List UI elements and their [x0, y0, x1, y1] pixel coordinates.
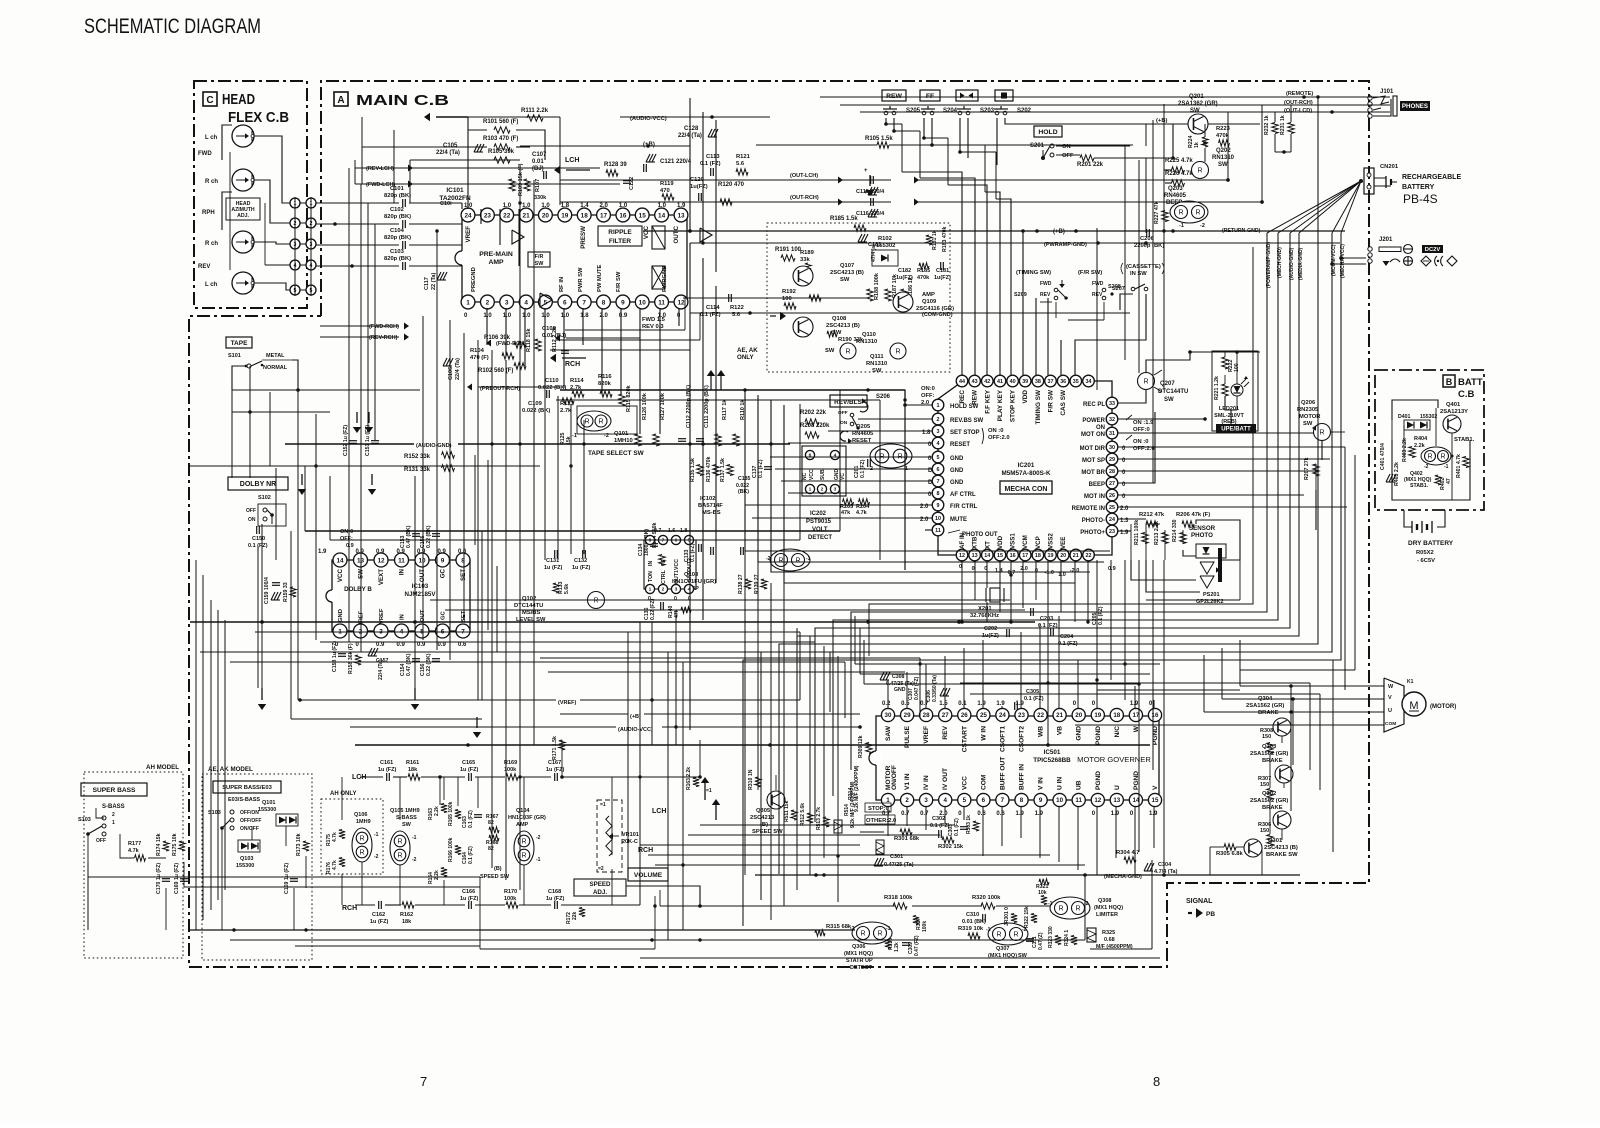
wire sensor cluster	[1131, 520, 1240, 600]
svg-text:0.6: 0.6	[458, 642, 467, 648]
arrow up r110	[717, 370, 725, 390]
label (PB-MUTE)	[1222, 228, 1261, 234]
label mot on off	[1126, 435, 1155, 452]
svg-text:R158 36k (F): R158 36k (F)	[348, 643, 354, 674]
svg-text:20K-C: 20K-C	[622, 839, 638, 845]
svg-text:21: 21	[523, 212, 531, 219]
wire R232 R231 drops	[1275, 105, 1291, 154]
svg-text:-2: -2	[536, 835, 541, 841]
svg-text:C181: C181	[936, 268, 949, 274]
resistor R231 1k	[1280, 115, 1294, 135]
svg-text:W: W	[1388, 684, 1394, 690]
label (REV-RCH)	[320, 334, 409, 342]
svg-text:OFF: OFF	[838, 410, 848, 416]
switch S206	[838, 394, 891, 444]
svg-text:C158 1u (FZ): C158 1u (FZ)	[332, 641, 338, 672]
svg-text:WB: WB	[1038, 726, 1045, 737]
svg-text:1.0: 1.0	[522, 313, 531, 319]
svg-text:-1: -1	[1444, 464, 1449, 470]
transistor Q207 DTC144TU SW	[1138, 370, 1189, 403]
svg-text:R170: R170	[504, 889, 517, 895]
capacitor C305 0.1 (FZ)	[1015, 689, 1044, 710]
resistor R511 15k	[784, 800, 797, 822]
svg-text:RN1310: RN1310	[1212, 155, 1235, 161]
svg-text:R301 68k: R301 68k	[894, 836, 920, 842]
svg-text:AF CTRL: AF CTRL	[950, 492, 976, 498]
svg-text:C304: C304	[1158, 862, 1172, 868]
svg-text:R: R	[1427, 453, 1432, 460]
wire mecha bottom drops	[960, 561, 1088, 628]
svg-text:6: 6	[675, 538, 678, 544]
svg-text:Q205: Q205	[856, 424, 871, 430]
transistor Q307 SW	[986, 923, 1028, 959]
resistor R102 560 (F)	[478, 363, 526, 374]
svg-text:0.22 (FZ): 0.22 (FZ)	[650, 598, 656, 620]
svg-text:0.1 (FZ): 0.1 (FZ)	[1024, 696, 1044, 702]
svg-text:26: 26	[1109, 493, 1115, 499]
svg-text:C165: C165	[462, 760, 475, 766]
resistor R186 1k	[901, 276, 914, 301]
resistor R227 47k	[1154, 201, 1168, 224]
svg-text:1.0: 1.0	[522, 203, 531, 209]
label (OUT-RCH)	[1284, 100, 1313, 106]
diode D401 155302	[1398, 414, 1437, 430]
wire OUT-RCH	[560, 105, 1264, 217]
resistor R140 47k	[668, 605, 691, 618]
capacitor C154 0.47 (BK)	[400, 653, 420, 676]
capacitor C159 100/4	[264, 577, 281, 604]
svg-text:11: 11	[398, 557, 405, 564]
svg-text:C170 1u (FZ): C170 1u (FZ)	[156, 863, 162, 894]
svg-text:1u (FZ): 1u (FZ)	[544, 565, 562, 571]
svg-text:0.9: 0.9	[376, 549, 385, 555]
resistor R131 33k	[404, 465, 455, 473]
svg-text:R304 4.7: R304 4.7	[1116, 850, 1140, 856]
led LED201	[1231, 376, 1249, 396]
svg-text:470 (F): 470 (F)	[470, 355, 489, 361]
svg-text:C103: C103	[390, 249, 405, 255]
label IC102 BA5714F	[698, 496, 723, 516]
wire timing sw area	[1040, 298, 1104, 320]
capacitor C113 0.1 (FZ)	[700, 154, 721, 176]
svg-text:R: R	[521, 838, 526, 845]
label LCH bottom	[352, 774, 366, 781]
svg-text:CN201: CN201	[1380, 164, 1399, 170]
capacitor C137 0.1 (FZ)	[752, 459, 772, 478]
box SUPER BASS/E03	[213, 781, 281, 793]
svg-text:SW: SW	[840, 277, 850, 283]
svg-text:J101: J101	[1380, 89, 1394, 95]
svg-text:-2: -2	[1424, 464, 1429, 470]
svg-text:(OUT-LCD): (OUT-LCD)	[1284, 108, 1312, 114]
svg-text:1.0: 1.0	[541, 313, 550, 319]
svg-text:0.9: 0.9	[417, 642, 426, 648]
resistor R202 22k	[800, 410, 827, 425]
box FWD-REV arrows	[956, 90, 978, 101]
resistor R201 22k	[1077, 155, 1104, 168]
junction dots texture	[232, 95, 1319, 941]
resistor R309 12k	[858, 735, 872, 758]
resistor R224 1k	[1188, 135, 1208, 148]
svg-text:IC501: IC501	[1044, 749, 1061, 756]
svg-text:SUPER BASS/E03: SUPER BASS/E03	[222, 785, 272, 791]
svg-text:N/C: N/C	[1114, 726, 1121, 738]
label PHONES	[1400, 101, 1430, 111]
svg-text:2.2k: 2.2k	[434, 870, 440, 880]
pin labels IC101 bottom	[471, 264, 668, 292]
svg-text:4.7k: 4.7k	[332, 860, 338, 870]
svg-text:7: 7	[1001, 797, 1005, 804]
svg-text:9.2k M/F (2400PPM): 9.2k M/F (2400PPM)	[850, 781, 856, 828]
svg-text:Q106: Q106	[354, 812, 367, 818]
wire top right q201 area	[1146, 124, 1260, 233]
wire lch chain	[355, 740, 702, 905]
svg-text:SCHEMATIC DIAGRAM: SCHEMATIC DIAGRAM	[84, 15, 261, 38]
capacitor C166 1u (FZ)	[460, 889, 478, 909]
svg-text:25: 25	[980, 712, 987, 719]
label PRE-MAIN AMP	[479, 251, 513, 266]
svg-text:C166: C166	[462, 889, 475, 895]
label REV	[198, 264, 210, 270]
svg-text:0.01 (BJ): 0.01 (BJ)	[542, 333, 566, 339]
wire right loops extra2	[869, 247, 1355, 670]
svg-text:AH ONLY: AH ONLY	[330, 791, 356, 797]
svg-text:0.1 (FZ): 0.1 (FZ)	[954, 818, 960, 836]
svg-text:R324 1: R324 1	[1064, 930, 1070, 946]
arrow down mid	[298, 474, 306, 495]
svg-text:METAL: METAL	[266, 353, 285, 359]
svg-text:43: 43	[972, 379, 978, 385]
svg-text:(MX1 HQQ): (MX1 HQQ)	[1094, 905, 1123, 911]
svg-text:5.6: 5.6	[736, 161, 745, 167]
svg-text:7: 7	[937, 479, 940, 485]
wire bottom buses	[88, 860, 1160, 958]
svg-text:SENSOR: SENSOR	[1189, 525, 1216, 532]
resistor R232 1k	[1264, 115, 1278, 135]
svg-text:0.047 (FZ): 0.047 (FZ)	[914, 676, 920, 700]
svg-text:-1: -1	[412, 835, 417, 841]
resistor R315 68k	[815, 924, 852, 936]
svg-text:R ch: R ch	[205, 179, 218, 185]
svg-text:DRY BATTERY: DRY BATTERY	[1408, 540, 1454, 547]
label =1	[706, 788, 712, 794]
svg-text:REV: REV	[942, 725, 949, 739]
op-amp IC201 left pins 1-11	[932, 399, 944, 536]
svg-text:R310 1N: R310 1N	[748, 769, 754, 790]
label MECHA-GND	[1083, 873, 1142, 880]
svg-text:100: 100	[782, 296, 792, 302]
resistor R306 150	[1258, 822, 1273, 846]
connector head flex pins 1-5	[290, 198, 316, 295]
svg-text:R: R	[778, 557, 783, 564]
label SIGNAL PB	[1186, 898, 1215, 918]
label (OUT-LCD)	[1284, 108, 1312, 114]
svg-text:3: 3	[937, 429, 940, 435]
wire dark bus y622	[190, 620, 1035, 624]
svg-text:F/R SW: F/R SW	[616, 271, 622, 292]
capacitor C165 1u (FZ)	[460, 760, 478, 781]
svg-text:(+B): (+B)	[1053, 229, 1065, 235]
svg-text:18k: 18k	[408, 767, 418, 773]
svg-text:PHOTO-: PHOTO-	[1082, 518, 1105, 524]
svg-text:(REMOTE): (REMOTE)	[1286, 91, 1313, 97]
svg-text:24: 24	[464, 212, 472, 219]
svg-text:W IN: W IN	[980, 726, 987, 741]
resistor R106 39k	[484, 335, 526, 348]
resistor R158 36k (F)	[348, 643, 361, 674]
svg-text:R: R	[1143, 378, 1148, 385]
resistor R181 1k	[926, 230, 938, 250]
svg-text:U: U	[1114, 785, 1121, 790]
svg-text:RPH: RPH	[202, 210, 215, 216]
polarity symbols	[1421, 256, 1457, 266]
svg-text:DOLBY NR: DOLBY NR	[240, 481, 276, 488]
op-amp IC201 body	[938, 381, 1112, 555]
wire pwramp gnd bus	[690, 241, 1340, 245]
label IC202 PST9015 VOLT DETECT	[806, 511, 832, 541]
svg-text:STOP KEY: STOP KEY	[1010, 389, 1017, 422]
svg-text:23: 23	[484, 212, 492, 219]
svg-text:C206: C206	[1140, 236, 1155, 242]
svg-text:820p (BK): 820p (BK)	[384, 235, 411, 241]
label B BATT C.B	[1443, 375, 1483, 400]
svg-text:MOT SP: MOT SP	[1082, 458, 1105, 464]
label (FWD-RCH) tape	[320, 323, 409, 331]
svg-text:C162: C162	[372, 912, 385, 918]
box REV/BLS	[830, 395, 867, 407]
svg-text:D401: D401	[1398, 414, 1411, 420]
label RPH	[202, 152, 230, 270]
svg-text:IC202: IC202	[810, 511, 827, 517]
svg-text:VSS1: VSS1	[1010, 533, 1017, 549]
svg-text:VEE: VEE	[1060, 537, 1067, 549]
page number 7	[420, 1074, 427, 1089]
values IC201 right	[1120, 446, 1129, 536]
wire speed area	[626, 775, 1050, 949]
svg-text:UB: UB	[1076, 780, 1083, 790]
capacitor C122 0.22 (FZ)	[623, 177, 635, 190]
label FWD	[198, 151, 212, 157]
wire bottom left risers	[166, 777, 524, 930]
capacitor C107 0.01 (BJ)	[532, 152, 547, 179]
wire top verticals left	[690, 98, 716, 730]
svg-text:820p (BK): 820p (BK)	[384, 193, 411, 199]
op-amp IC501 body	[869, 716, 1159, 800]
resistor R214 330	[1172, 519, 1186, 543]
svg-text:R117 1k: R117 1k	[722, 399, 728, 420]
svg-text:R202 22k: R202 22k	[800, 410, 827, 416]
svg-text:COM: COM	[980, 774, 987, 790]
svg-text:3: 3	[924, 797, 928, 804]
capacitor C309 0.47 (FZ)	[902, 935, 920, 956]
svg-text:1: 1	[649, 587, 652, 593]
svg-text:GND: GND	[1076, 726, 1083, 741]
label RCH mid	[638, 847, 653, 854]
svg-text:(POWERAMP-GND): (POWERAMP-GND)	[1266, 242, 1272, 288]
capacitor C102 820p (BK)	[384, 207, 411, 228]
svg-text:RN4605: RN4605	[852, 431, 874, 437]
svg-text:7: 7	[420, 1074, 427, 1089]
svg-text:(MX1 HQQ): (MX1 HQQ)	[844, 951, 873, 957]
svg-text:R139 27: R139 27	[754, 574, 760, 594]
resistor R122 5.6	[730, 295, 821, 320]
svg-text:S102: S102	[258, 495, 271, 501]
svg-text:J201: J201	[1379, 237, 1393, 243]
svg-text:1k: 1k	[1194, 142, 1200, 148]
svg-text:R404: R404	[1414, 436, 1428, 442]
svg-text:22/4 (Ta): 22/4 (Ta)	[455, 358, 461, 380]
svg-text:21: 21	[1056, 712, 1063, 719]
svg-text:R135 1.5k: R135 1.5k	[690, 458, 696, 482]
svg-text:18: 18	[1113, 712, 1120, 719]
svg-text:DETECT: DETECT	[850, 965, 873, 971]
svg-text:S103: S103	[208, 810, 221, 816]
svg-text:FWD: FWD	[198, 151, 212, 157]
svg-text:IV OUT: IV OUT	[942, 768, 949, 790]
resistor R104 470 (F)	[470, 348, 514, 361]
svg-text:GND: GND	[894, 687, 906, 693]
svg-text:17: 17	[1022, 553, 1028, 559]
svg-text:27: 27	[942, 712, 949, 719]
svg-text:R114: R114	[570, 378, 584, 384]
svg-text:X201: X201	[978, 606, 992, 612]
label (+B) q201	[1156, 118, 1168, 124]
op-amp IC102 pins	[645, 535, 693, 593]
resistor R226 4.7k	[1165, 171, 1193, 186]
svg-text:R116: R116	[598, 374, 612, 380]
svg-text:VCC: VCC	[809, 469, 815, 480]
svg-text:C202: C202	[984, 626, 997, 632]
wire r105 line	[756, 136, 1133, 148]
svg-text:PWR SW: PWR SW	[578, 267, 584, 292]
svg-text:2.2k: 2.2k	[434, 806, 440, 816]
svg-text:VC: VC	[840, 473, 846, 480]
svg-text:CTRL: CTRL	[661, 569, 667, 584]
svg-text:150: 150	[1262, 734, 1271, 740]
svg-text:VB: VB	[1057, 726, 1064, 735]
svg-text:(CASSETTE): (CASSETTE)	[1126, 264, 1161, 270]
resistor R128 39	[604, 162, 627, 176]
svg-text:U IN: U IN	[1057, 777, 1064, 790]
svg-text:R214 330: R214 330	[1172, 519, 1178, 542]
svg-text:82: 82	[488, 820, 494, 826]
svg-text:OFF: OFF	[246, 508, 256, 514]
svg-text:R174 15k: R174 15k	[156, 833, 162, 856]
svg-text:1.9: 1.9	[1111, 811, 1120, 817]
capacitor C302 0.1 (FZ)	[930, 816, 950, 838]
svg-text:(OUT-RCH): (OUT-RCH)	[790, 195, 819, 201]
resistor R305 6.8k	[1216, 844, 1244, 857]
transistor Q304 2SA1562 BRAKE	[1246, 696, 1291, 736]
svg-text:SET STOP: SET STOP	[950, 430, 980, 436]
arrow down mid3	[473, 717, 481, 738]
svg-text:SAW: SAW	[885, 725, 892, 741]
svg-text:VOLT: VOLT	[812, 527, 828, 533]
box DOLBY NR	[228, 477, 288, 490]
svg-text:R325: R325	[1102, 930, 1115, 936]
svg-text:2.2k: 2.2k	[1414, 443, 1426, 449]
svg-text:Q307: Q307	[996, 946, 1009, 952]
capacitor C306 0.33	[926, 675, 950, 702]
svg-text:R: R	[895, 348, 900, 355]
svg-text:VCC: VCC	[337, 568, 344, 582]
svg-text:FWD: FWD	[1040, 281, 1052, 287]
svg-text:29: 29	[1109, 457, 1115, 463]
svg-text:R231 1k: R231 1k	[1280, 115, 1286, 135]
svg-text:RN4605: RN4605	[1164, 193, 1187, 199]
svg-text:COM: COM	[1385, 721, 1396, 727]
wire AH model	[88, 808, 166, 930]
capacitor C156 0.22 (BK)	[420, 653, 440, 676]
wire IC101 top area	[468, 115, 770, 209]
resistor R109 15k (F)	[509, 163, 524, 196]
transistor Q306 STATR UP DETECT	[844, 922, 892, 971]
svg-text:16: 16	[1010, 553, 1016, 559]
op-amp IC103 body	[326, 560, 470, 631]
svg-text:BRAKE: BRAKE	[1262, 758, 1283, 764]
svg-text:SW: SW	[1190, 108, 1200, 114]
transistor Q302 2SA1562 BRAKE	[1250, 791, 1291, 829]
svg-text:2: 2	[937, 417, 940, 423]
svg-text:ON/OFF: ON/OFF	[240, 826, 259, 832]
svg-text:10: 10	[1056, 797, 1063, 804]
resistor R513 2.7k	[816, 807, 829, 830]
svg-text:2SC4213 (B): 2SC4213 (B)	[830, 270, 864, 276]
svg-text:2: 2	[821, 487, 824, 493]
wire head connector to IC101	[316, 160, 640, 440]
svg-text:REV 0.3: REV 0.3	[642, 324, 664, 330]
svg-text:12: 12	[959, 553, 965, 559]
wire key bundle to mecha	[902, 172, 1146, 375]
values IC101 top	[464, 203, 686, 209]
svg-text:BUFF IN: BUFF IN	[1019, 764, 1026, 790]
svg-text:BATT: BATT	[1458, 377, 1483, 388]
svg-text:0.9: 0.9	[438, 549, 447, 555]
transistor Q111 RN1310 SW	[866, 343, 906, 374]
svg-text:AF IN: AF IN	[959, 532, 966, 549]
label (PWRAMP-GND)	[1044, 241, 1100, 248]
svg-text:REW: REW	[972, 389, 979, 405]
svg-text:8: 8	[602, 299, 606, 306]
svg-text:(REV-RCH): (REV-RCH)	[369, 335, 398, 341]
box LED201	[1212, 351, 1258, 431]
capacitor C110 0.022 (BK)	[538, 378, 566, 398]
battery symbol rechargeable	[1374, 176, 1397, 188]
resistor R192 100	[782, 289, 796, 309]
wire right bundle loops	[743, 97, 1341, 926]
svg-text:ONLY: ONLY	[737, 354, 754, 361]
label FWD REV values	[642, 317, 666, 330]
svg-text:R177: R177	[128, 841, 141, 847]
svg-text:-2: -2	[1200, 223, 1205, 229]
op-amp IC201 top pins	[956, 375, 1094, 387]
svg-text:GND: GND	[950, 456, 964, 462]
box FF	[920, 90, 940, 101]
svg-text:MOT ON: MOT ON	[1081, 432, 1105, 438]
svg-text:TON: TON	[648, 571, 654, 582]
resistor R512 5.6k	[800, 803, 813, 826]
resistor R403 2.2k	[1402, 438, 1415, 462]
svg-text:C132: C132	[574, 558, 587, 564]
head L ch REV	[205, 272, 254, 294]
wire right loops extra	[960, 447, 1345, 852]
resistor R161 18k	[406, 760, 420, 780]
resistor R166 100k	[448, 837, 461, 862]
svg-text:(REV-LCH): (REV-LCH)	[366, 166, 394, 172]
wire head flex vertical bus	[295, 197, 311, 296]
op-amp IC102 body	[644, 540, 696, 589]
resistor R325 0.68 hatched	[1087, 928, 1133, 950]
